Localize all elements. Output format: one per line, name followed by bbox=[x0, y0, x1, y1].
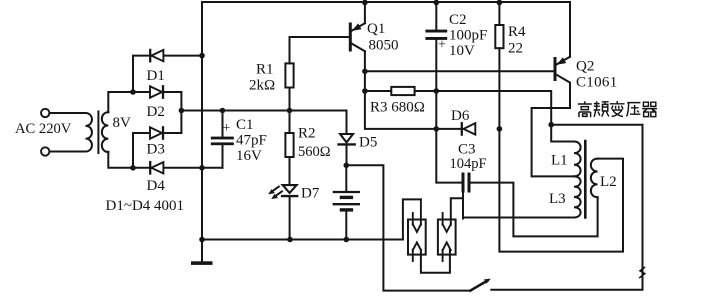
junction secondary top / D1 / D2 bbox=[130, 89, 136, 95]
diode D2 bbox=[150, 86, 162, 97]
wire AC bottom lead bbox=[49, 151, 85, 153]
junction bridge positive output bbox=[179, 108, 185, 114]
diode D3 bbox=[150, 127, 162, 138]
junction R1 / R2 bbox=[287, 108, 293, 114]
capacitor C3 bbox=[462, 173, 465, 193]
inductor L3 bbox=[574, 176, 581, 217]
svg-text:+: + bbox=[438, 38, 446, 53]
junction D4 anode / C1 negative / rail bbox=[199, 165, 205, 171]
junction C2 / rail bbox=[434, 0, 440, 5]
ground bbox=[191, 261, 213, 265]
wire D3 row bbox=[133, 132, 181, 134]
hanzi pin bbox=[594, 101, 609, 116]
transformer T1 secondary winding bbox=[102, 112, 108, 152]
wire battery row bbox=[202, 239, 403, 241]
svg-text:AC 220V: AC 220V bbox=[15, 121, 72, 137]
wire Q2 base line bbox=[365, 70, 554, 72]
transistor Q2 bbox=[554, 59, 557, 80]
junction ground node / battery return bbox=[199, 237, 205, 243]
junction Q1 top / rail bbox=[362, 0, 368, 5]
junction secondary bottom / D3 / D4 bbox=[130, 165, 136, 171]
svg-text:16V: 16V bbox=[236, 148, 262, 164]
diode D4 bbox=[149, 162, 151, 173]
lamp tube E2 bbox=[438, 220, 456, 255]
wire R3 row to L1 node bbox=[365, 91, 551, 125]
resistor R3 bbox=[391, 87, 414, 95]
junction battery negative / row bbox=[344, 237, 350, 243]
junction R3 left bbox=[362, 88, 368, 94]
wire D2-D3 cathode vertical bbox=[180, 92, 182, 133]
junction D6 / C2 / C3 bbox=[434, 126, 440, 132]
resistor R4 bbox=[498, 2, 500, 25]
svg-text:104pF: 104pF bbox=[450, 156, 487, 172]
svg-text:100pF: 100pF bbox=[449, 28, 487, 44]
junction R3 / C2 branch bbox=[434, 88, 440, 94]
junction D1 anode / negative rail bbox=[199, 53, 205, 59]
svg-text:22: 22 bbox=[508, 41, 523, 57]
diode D6 bbox=[461, 123, 463, 134]
wire Q2 emitter to L1/L3 tap bbox=[532, 75, 574, 177]
hanzi ya bbox=[627, 103, 641, 117]
svg-text:C1: C1 bbox=[236, 117, 254, 133]
lamp tube E1 bbox=[408, 220, 426, 255]
label 高频变压器 (drawn glyphs) bbox=[578, 101, 657, 117]
inductor L1 bbox=[574, 142, 581, 177]
node AC terminal bottom bbox=[41, 147, 49, 155]
switch S blade bbox=[470, 281, 487, 291]
svg-text:D1~D4 4001: D1~D4 4001 bbox=[106, 198, 185, 214]
svg-text:D7: D7 bbox=[301, 186, 320, 202]
svg-text:C2: C2 bbox=[449, 12, 467, 28]
junction D7 / battery row bbox=[287, 237, 293, 243]
svg-text:Q2: Q2 bbox=[576, 59, 594, 75]
transformer T1 core bbox=[97, 112, 99, 154]
junction C1 positive bbox=[220, 108, 226, 114]
svg-text:R1: R1 bbox=[256, 62, 274, 78]
junction D6 / R4 bbox=[497, 126, 503, 132]
junction R3 feed / L1 / right loop bbox=[548, 122, 554, 128]
svg-text:8050: 8050 bbox=[369, 38, 399, 54]
wire AC top lead bbox=[49, 112, 85, 114]
wire lamp E2 top pin to C3 node bbox=[451, 198, 463, 225]
wire R4 bottom to L2 top outer loop bbox=[499, 129, 623, 252]
wire bridge positive line bbox=[181, 110, 346, 112]
svg-text:D3: D3 bbox=[147, 142, 165, 158]
resistor R2 bbox=[289, 111, 291, 134]
svg-text:L3: L3 bbox=[549, 191, 566, 207]
wire L1 top feed bbox=[551, 125, 574, 142]
hanzi qi bbox=[642, 102, 657, 116]
svg-text:560Ω: 560Ω bbox=[298, 144, 331, 160]
wire C2 bottom vertical to C3 lead bbox=[436, 40, 461, 183]
wire D1 left leg bbox=[133, 56, 202, 92]
wire secondary top riser to bridge bbox=[108, 92, 181, 112]
svg-text:D1: D1 bbox=[147, 68, 165, 84]
svg-text:D2: D2 bbox=[147, 104, 165, 120]
svg-text:D4: D4 bbox=[147, 178, 166, 194]
transformer T2 core bbox=[584, 141, 587, 218]
svg-text:C1061: C1061 bbox=[576, 75, 618, 91]
diode D1 bbox=[149, 50, 151, 61]
wire C3 right lead to L2 bottom bbox=[471, 183, 598, 237]
svg-text:R3 680Ω: R3 680Ω bbox=[370, 100, 425, 116]
wire lamp E1 to E2 bottom U link bbox=[421, 250, 450, 273]
svg-text:8V: 8V bbox=[113, 115, 132, 131]
svg-text:L1: L1 bbox=[551, 153, 568, 169]
wire left rail (bridge negative) bbox=[201, 2, 203, 262]
transformer T1 primary winding bbox=[86, 113, 92, 152]
node AC terminal top bbox=[41, 109, 49, 117]
wire D5 bottom to switch bottom rail bbox=[346, 165, 470, 290]
transistor Q1 bbox=[349, 24, 352, 50]
wire top rail bbox=[202, 1, 570, 3]
hanzi bian bbox=[610, 101, 625, 117]
wire C3 left plate down to L3 return bbox=[462, 193, 464, 219]
connector break mark bbox=[640, 268, 645, 278]
svg-text:R4: R4 bbox=[508, 24, 526, 40]
LED D7 bbox=[283, 185, 297, 193]
svg-text:+: + bbox=[223, 121, 231, 136]
svg-text:R2: R2 bbox=[298, 126, 316, 142]
capacitor C1 bbox=[222, 111, 224, 137]
resistor R1 bbox=[289, 88, 291, 111]
wire D3 left leg down bbox=[132, 133, 134, 168]
svg-text:L2: L2 bbox=[600, 174, 617, 190]
junction R4 / rail bbox=[497, 0, 503, 5]
junction D5 cathode / battery positive bbox=[344, 163, 350, 169]
LED D7 emission arrows bbox=[271, 187, 279, 193]
diode D5 bbox=[346, 111, 348, 134]
junction Q2 base tap bbox=[362, 69, 368, 75]
wire Q1 lower leg down to D6 row bbox=[365, 51, 461, 129]
svg-text:D5: D5 bbox=[359, 135, 377, 151]
inductor L2 bbox=[591, 159, 598, 198]
wire collector node to right rail bbox=[491, 125, 642, 290]
wire secondary bottom riser bbox=[108, 152, 222, 168]
svg-text:Q1: Q1 bbox=[367, 21, 385, 37]
wire riser to lamp E1 top feed bbox=[403, 199, 421, 239]
svg-text:D6: D6 bbox=[451, 108, 470, 124]
wire L3 bottom return bbox=[463, 217, 574, 219]
svg-text:47pF: 47pF bbox=[236, 133, 267, 149]
battery GB bbox=[345, 165, 347, 191]
svg-text:10V: 10V bbox=[449, 43, 475, 59]
hanzi gao bbox=[578, 101, 592, 117]
capacitor C2 bbox=[435, 2, 437, 30]
svg-text:2kΩ: 2kΩ bbox=[249, 78, 275, 94]
